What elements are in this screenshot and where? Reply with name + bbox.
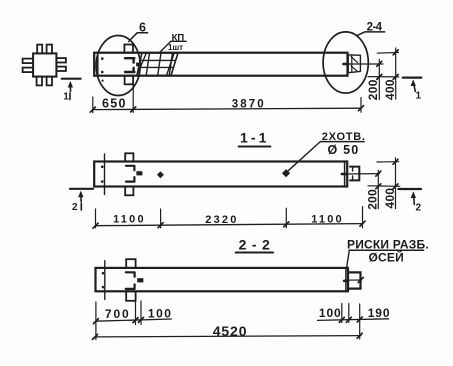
view 2-2: centre line end tick <box>358 278 363 283</box>
view 2-2: plate tab below beam <box>126 291 135 301</box>
cross-section left tabs <box>23 59 33 73</box>
view 2-2 left dims: extension lines <box>96 301 141 340</box>
view 1-1 dims: dimension line <box>96 224 363 226</box>
dim 650/3870: extension lines <box>93 76 361 113</box>
callout: underline shelf <box>349 249 423 251</box>
view 1-1: inner line at right end (double edge) <box>344 162 346 187</box>
view 2-2 right dims: extension lines <box>342 304 360 340</box>
view 1-1 dims: ticks <box>93 221 365 228</box>
cross-section bottom tabs <box>37 77 52 86</box>
callout axis risk marks: leader <box>347 250 350 268</box>
view 1-1 right: extension of top edge <box>377 161 399 163</box>
top view: embedded plate tab above beam <box>124 45 133 53</box>
top view: right end anchor plate <box>348 55 360 73</box>
svg-text:200: 200 <box>366 79 380 100</box>
cross-section right tabs <box>56 58 66 71</box>
section mark 2 (right of view 1-1): cut line <box>398 188 421 190</box>
dim 650/3870: ticks <box>90 106 363 112</box>
svg-text:1 - 1: 1 - 1 <box>240 130 267 146</box>
view 1-1: filled plate mark <box>136 171 142 175</box>
header 2-2 underline <box>236 252 273 254</box>
view 1-1: axis line at left <box>104 154 106 195</box>
view 1-1 right: extension of bottom edge <box>368 185 400 188</box>
view 1-1: upper angle bracket <box>126 166 134 171</box>
header 1-1 underline <box>239 146 271 148</box>
dim 400 ticks <box>393 50 398 80</box>
svg-text:2320: 2320 <box>205 214 238 226</box>
section mark 1 (left, under cross symbol): cut line <box>62 78 81 80</box>
cage KP: internal horizontal bars <box>139 60 176 67</box>
svg-text:100: 100 <box>148 307 173 321</box>
view 2-2: lower angle bracket <box>126 284 135 289</box>
svg-text:Ø 50: Ø 50 <box>328 143 360 157</box>
dim 200 (view 1-1): vertical dimension line <box>377 170 379 208</box>
reinforcement cage KP: outline parallelogram <box>137 53 178 76</box>
view 1-1: small hole diamond <box>157 171 164 178</box>
dim 200 (top view): vertical dimension line <box>378 60 380 100</box>
callout 2 holes d50: leader <box>287 142 320 172</box>
top view right: extension of bottom edge <box>368 76 399 78</box>
view 2-2 right dims: dimension line <box>318 319 389 321</box>
section mark 2 (left of view 1-1): cut line <box>70 188 93 190</box>
svg-text:700: 700 <box>105 307 131 321</box>
view 2-2 right dims: ticks <box>339 317 362 322</box>
view 2-2: thick axis dash <box>344 280 348 282</box>
svg-text:1: 1 <box>63 92 69 103</box>
top view: lower angle bracket in beam <box>125 68 134 72</box>
section mark 2 right: arrow <box>411 191 416 204</box>
top view right: extension of top edge <box>377 51 398 54</box>
svg-text:1100: 1100 <box>113 214 146 226</box>
view 2-2: right anchor loop <box>349 272 361 288</box>
top view: upper angle bracket in beam <box>125 58 134 62</box>
view 1-1: anchor inner marks <box>352 167 354 181</box>
view 2-2: beam outline <box>96 268 349 291</box>
svg-text:190: 190 <box>368 306 391 320</box>
callout 6: leader and shelf <box>129 33 148 42</box>
svg-text:4520: 4520 <box>213 323 248 339</box>
svg-text:РИСКИ РАЗБ.: РИСКИ РАЗБ. <box>347 237 429 251</box>
top view: center line through right end <box>344 63 383 65</box>
view 1-1: hole diamond (leader target) <box>282 169 290 177</box>
view 2-2: axis line at left <box>104 261 106 300</box>
svg-text:1100: 1100 <box>311 213 344 225</box>
svg-text:1: 1 <box>416 91 422 102</box>
view 2-2: inner line at right end <box>345 268 347 291</box>
view 1-1: plate tab above beam <box>125 153 133 161</box>
callout 2-4: leader and shelf <box>358 32 385 35</box>
top view: embedded plate tab below beam <box>125 76 134 85</box>
svg-text:2: 2 <box>72 202 78 213</box>
column cross-section symbol: square body <box>33 53 56 76</box>
cage KP: diagonal braces <box>137 53 174 76</box>
section mark 1 right: arrow <box>411 79 416 91</box>
top view: inner line at left end (double edge) <box>97 53 99 76</box>
dim 650/3870: dimension line <box>93 108 361 109</box>
svg-text:400: 400 <box>383 79 397 100</box>
svg-text:650: 650 <box>102 96 127 110</box>
svg-text:6: 6 <box>139 21 146 35</box>
view 1-1: axis dots <box>101 166 104 183</box>
svg-text:1шт: 1шт <box>168 43 183 52</box>
view 2-2 left dims: dimension line <box>96 319 171 321</box>
svg-text:2 - 2: 2 - 2 <box>239 236 271 252</box>
detail callout ellipse 2-4 (right end) <box>323 32 368 93</box>
detail callout ellipse 6 (left end) <box>96 36 140 96</box>
dim 400 (view 1-1) ticks <box>393 159 398 189</box>
top view: axis dots at left end <box>101 57 104 81</box>
callout 2 holes: shelf line <box>320 141 364 143</box>
cross-section top tabs <box>37 45 52 54</box>
svg-text:2: 2 <box>416 203 422 214</box>
view 2-2: center line at right end <box>344 279 362 281</box>
top view: filled plate mark <box>136 63 141 67</box>
svg-text:200: 200 <box>366 189 380 210</box>
svg-text:КП: КП <box>172 32 185 43</box>
dim 200 (view 1-1) ticks <box>376 171 381 189</box>
dim 400 (top view): vertical dimension line <box>395 48 397 99</box>
svg-text:2ХОТВ.: 2ХОТВ. <box>322 131 366 143</box>
view 1-1: thick axis dash <box>342 173 346 176</box>
view 1-1: plate tab below beam <box>125 187 133 196</box>
dim 4520: dimension line <box>95 336 361 337</box>
svg-text:3870: 3870 <box>232 98 266 110</box>
svg-text:100: 100 <box>319 306 342 320</box>
anchor plate inner lines <box>351 55 358 72</box>
top view: thick axis dash at right end <box>344 63 349 66</box>
callout KP: leader and shelf <box>160 41 187 52</box>
view 1-1: right anchor loop <box>350 167 359 181</box>
view 1-1: center line at right end <box>342 173 380 175</box>
view 2-2: axis dots <box>102 272 105 289</box>
view 1-1 dims: extension lines <box>96 207 363 228</box>
view 2-2 left dims: ticks <box>93 317 143 323</box>
section mark 1 (right of top view): cut line <box>403 76 422 78</box>
cage KP: internal vertical bars <box>146 53 172 76</box>
dim 4520: ticks <box>93 333 363 339</box>
svg-text:ØСЕЙ: ØСЕЙ <box>369 249 404 264</box>
section mark 2 left: arrow <box>78 191 83 210</box>
view 1-1: lower angle bracket <box>126 177 134 182</box>
dim 400 (view 1-1): vertical dimension line <box>395 158 397 209</box>
section mark 1 left: arrow <box>68 81 73 100</box>
svg-text:400: 400 <box>383 188 397 209</box>
view 2-2: filled plate mark <box>137 278 143 282</box>
view 2-2: upper angle bracket <box>126 272 135 277</box>
view 1-1: beam outline <box>94 162 347 187</box>
top view: beam outline <box>94 53 347 76</box>
view 2-2: plate tab above beam <box>126 259 135 268</box>
svg-text:2-4: 2-4 <box>367 22 383 34</box>
dim 200 ticks <box>377 61 382 79</box>
